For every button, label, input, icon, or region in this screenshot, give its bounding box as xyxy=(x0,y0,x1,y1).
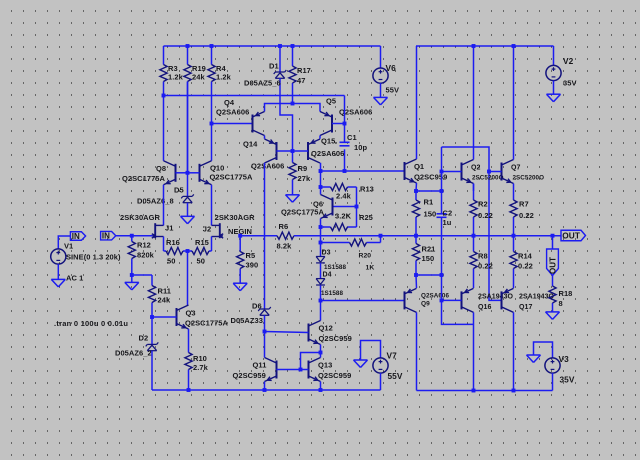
ground below V6 xyxy=(374,97,388,105)
svg-text:D2: D2 xyxy=(139,334,149,343)
junction Q2 collector rail xyxy=(472,44,476,48)
label V6 xyxy=(386,63,397,73)
wire C1 bottom xyxy=(344,149,346,171)
label R3 xyxy=(168,64,178,73)
wire Q1 collector to +rail xyxy=(416,46,418,159)
label V7 xyxy=(387,351,398,361)
svg-text:50: 50 xyxy=(167,257,175,266)
svg-text:D3: D3 xyxy=(322,250,331,257)
resistor R11 xyxy=(148,275,155,317)
label D5 xyxy=(174,186,184,195)
svg-text:Q4: Q4 xyxy=(224,98,235,107)
junction Q17 collector rail xyxy=(512,389,516,393)
wire D2 to bottom rail xyxy=(151,351,153,390)
svg-text:R12: R12 xyxy=(137,241,151,250)
value 3.2K of R25 xyxy=(335,212,352,221)
svg-text:Q2SC959: Q2SC959 xyxy=(233,371,266,380)
diode D4 xyxy=(316,279,325,285)
value D05AZ33 of D6 xyxy=(231,316,263,325)
jfet J2 xyxy=(212,223,224,238)
wire Q15 base xyxy=(293,150,309,152)
wire D1 anode xyxy=(279,46,281,72)
svg-text:R13: R13 xyxy=(360,185,374,194)
wire Q15 collector down xyxy=(320,163,322,195)
wire Q5 emitter jog xyxy=(293,104,321,112)
jfet J1 xyxy=(152,223,164,238)
value 2SC5200O of Q7 xyxy=(513,175,545,182)
label D1 xyxy=(269,62,279,71)
svg-text:R20: R20 xyxy=(359,253,372,260)
wire rail to load flag xyxy=(552,236,554,249)
value 150 of R21 xyxy=(422,254,435,263)
voltage source V3 circle xyxy=(545,358,560,373)
junction input bases xyxy=(186,171,190,175)
label Q17 xyxy=(519,304,532,311)
wire top jog to Q7 base column xyxy=(442,147,490,172)
wire bias node to Q12 collector xyxy=(320,301,322,321)
resistor R6 xyxy=(277,232,294,239)
junction R17 bottom emitters node xyxy=(291,102,295,106)
svg-text:R15: R15 xyxy=(195,238,209,247)
zener D5 xyxy=(181,194,194,202)
wire C2 column top xyxy=(441,147,443,214)
wire R12 to ground xyxy=(131,275,133,282)
value Q2SA606 of Q9 xyxy=(421,293,449,300)
value Q2SC1775A of Q10 xyxy=(210,173,254,182)
wire C1 top xyxy=(344,96,346,143)
svg-text:V7: V7 xyxy=(387,351,398,361)
label R7 xyxy=(519,200,529,209)
label R18 xyxy=(559,289,573,298)
label Q10 xyxy=(210,164,224,173)
junction Q16 base node xyxy=(440,298,444,302)
ground below V1 xyxy=(51,279,65,287)
resistor R3 xyxy=(160,46,167,96)
transistor Q13 xyxy=(309,358,321,382)
junction bias bases node xyxy=(291,149,295,153)
svg-text:R9: R9 xyxy=(298,164,308,173)
value 2SA1943O of Q16 xyxy=(478,294,514,301)
label D3 xyxy=(322,250,331,257)
junction R4 bottom node xyxy=(210,122,214,126)
label R2 xyxy=(478,200,488,209)
svg-text:Q7: Q7 xyxy=(511,165,520,172)
transistor Q14 xyxy=(265,139,277,163)
label Q1 xyxy=(414,162,424,171)
label Q3 xyxy=(186,309,196,318)
junction tail node xyxy=(186,249,190,253)
voltage source V6 circle xyxy=(373,68,388,83)
junction Q12 base node xyxy=(263,330,267,334)
transistor Q3 xyxy=(177,305,189,329)
junction R21 bottom xyxy=(414,273,418,277)
value 2SA1943O of Q17 xyxy=(519,294,555,301)
wire C2 column lower xyxy=(441,275,443,300)
svg-text:IN: IN xyxy=(72,232,80,241)
label Q4 xyxy=(224,98,235,107)
svg-text:35V: 35V xyxy=(560,375,575,385)
capacitor C1 xyxy=(340,142,350,146)
svg-text:D05AZ33: D05AZ33 xyxy=(231,316,263,325)
value D05AZ6_2 of D2 xyxy=(115,349,152,358)
svg-text:Q12: Q12 xyxy=(319,324,333,333)
svg-text:R21: R21 xyxy=(422,245,436,254)
flag OUT load (rotated) xyxy=(547,249,559,276)
wire Q7 base column xyxy=(489,172,502,301)
wire VAS node to Q1 base xyxy=(321,170,405,172)
value 24k of R19 xyxy=(192,73,205,82)
label Q6 xyxy=(313,200,323,209)
svg-text:24k: 24k xyxy=(158,296,171,305)
junction Q3 base node xyxy=(150,315,154,319)
svg-text:Q5: Q5 xyxy=(326,97,336,106)
svg-text:C2: C2 xyxy=(443,209,453,218)
label 55V of V6 xyxy=(386,86,400,95)
flag OUT main xyxy=(561,230,586,241)
resistor R25 xyxy=(321,223,357,230)
label C2 xyxy=(443,209,453,218)
resistor R20 xyxy=(321,239,381,246)
svg-text:0.22: 0.22 xyxy=(478,262,493,271)
svg-text:Q2SC1775A: Q2SC1775A xyxy=(281,208,325,217)
wire Q12 emitter jog xyxy=(301,353,321,370)
label R21 xyxy=(422,245,436,254)
label C1 xyxy=(347,133,357,142)
transistor Q7 xyxy=(502,160,514,184)
wire R20 right leg xyxy=(380,236,382,243)
svg-text:R5: R5 xyxy=(246,251,256,260)
svg-text:1S1588: 1S1588 xyxy=(324,264,346,271)
svg-text:1.2k: 1.2k xyxy=(168,73,184,82)
label Q2 xyxy=(471,165,480,172)
label Q13 xyxy=(318,361,332,370)
svg-text:D05AZ6_8: D05AZ6_8 xyxy=(137,197,174,206)
svg-text:2SC5200O: 2SC5200O xyxy=(513,175,545,182)
wire to D3 xyxy=(320,243,322,257)
value 2.4k of R13 xyxy=(336,192,352,201)
wire Q3 base node to D2 xyxy=(151,317,153,344)
svg-text:D4: D4 xyxy=(323,272,332,279)
wire V2 feed xyxy=(553,46,555,66)
svg-text:35V: 35V xyxy=(563,79,577,88)
label R16 xyxy=(166,238,180,247)
svg-text:D05AZ6_2: D05AZ6_2 xyxy=(115,349,152,358)
svg-text:R16: R16 xyxy=(166,238,180,247)
wire Q2 base xyxy=(442,171,462,173)
flag IN source xyxy=(70,232,85,241)
svg-text:D6: D6 xyxy=(252,302,262,311)
wire Q8 emitter to J1 drain xyxy=(163,185,165,226)
svg-text:Q2SA606: Q2SA606 xyxy=(421,293,449,300)
junction VAS node left xyxy=(319,169,323,173)
value Q2SC1775A of Q6 xyxy=(281,208,325,217)
svg-text:Q2SC959: Q2SC959 xyxy=(318,371,351,380)
value 2.7k of R10 xyxy=(193,363,209,372)
resistor R21 xyxy=(412,236,419,275)
svg-text:Q2SC1775A: Q2SC1775A xyxy=(122,174,166,183)
junction Q13 emitter rail xyxy=(319,388,323,392)
svg-text:C1: C1 xyxy=(347,133,357,142)
junction R10 bottom xyxy=(187,388,191,392)
junction R20 on out rail xyxy=(379,234,383,238)
svg-text:Q17: Q17 xyxy=(519,304,532,311)
svg-text:R14: R14 xyxy=(518,252,533,261)
wire D1 to bias node xyxy=(280,78,293,151)
svg-text:Q2SC959: Q2SC959 xyxy=(319,334,352,343)
wire V1 to IN flag xyxy=(58,236,70,249)
svg-text:Q3: Q3 xyxy=(186,309,196,318)
svg-text:IN: IN xyxy=(102,232,110,241)
wire Q5-Q15 link xyxy=(319,136,321,139)
svg-text:J1: J1 xyxy=(165,224,173,233)
wire R3 node down to Q8 collector xyxy=(163,96,165,161)
directive .tran xyxy=(54,319,128,328)
ground above V7 xyxy=(354,360,368,368)
wire V1 to ground xyxy=(57,264,59,279)
label D4 xyxy=(323,272,332,279)
label R12 xyxy=(137,241,151,250)
junction Q11 emitter rail xyxy=(263,388,267,392)
wire V7 minus to rail xyxy=(380,373,382,390)
ground below R5 xyxy=(233,283,247,291)
value 1K of R20 xyxy=(366,265,375,272)
value 0.22 of R7 xyxy=(519,211,534,220)
value 55V of V7 xyxy=(388,371,403,381)
resistor R12 xyxy=(128,236,135,275)
resistor R8 xyxy=(470,236,477,288)
svg-text:2.4k: 2.4k xyxy=(336,192,352,201)
svg-text:390: 390 xyxy=(246,261,259,270)
wire D4 down xyxy=(320,285,322,300)
wire Q3 base xyxy=(152,316,177,318)
junction Q7 collector rail xyxy=(512,44,516,48)
label D2 xyxy=(139,334,149,343)
value Q2SC1775A of Q3 xyxy=(185,319,229,328)
svg-text:Q2SA606: Q2SA606 xyxy=(251,162,284,171)
wire negative rail right xyxy=(417,390,553,392)
wire J1 source to R16 xyxy=(163,237,165,252)
value 0.22 of R14 xyxy=(518,262,533,271)
capacitor C2 xyxy=(437,214,447,218)
wire Q16 base xyxy=(442,299,462,301)
wire R19 to base node xyxy=(187,82,189,173)
svg-text:8: 8 xyxy=(559,299,563,308)
wire D5 to ground xyxy=(187,203,189,216)
junction C2 tap xyxy=(440,189,444,193)
svg-text:R17: R17 xyxy=(297,66,311,75)
value Q2SC1775A of Q8 xyxy=(122,174,166,183)
wire Q11 collector up xyxy=(264,332,266,358)
svg-text:J2: J2 xyxy=(203,225,211,234)
wire Q14 collector column xyxy=(264,163,266,309)
resistor R7 xyxy=(510,184,517,236)
resistor R16 xyxy=(164,247,188,254)
wire Q4 emitter jog xyxy=(265,104,293,112)
svg-text:55V: 55V xyxy=(388,371,403,381)
wire +35V top rail xyxy=(416,45,554,47)
transistor Q6 xyxy=(321,195,333,219)
wire Q12 base xyxy=(265,332,309,333)
svg-text:50: 50 xyxy=(197,257,205,266)
label R10 xyxy=(193,354,207,363)
svg-text:8.2k: 8.2k xyxy=(277,242,293,251)
wire R21 node right xyxy=(416,274,442,276)
resistor R13 xyxy=(321,183,357,190)
value AC 1 of V1 xyxy=(66,274,83,283)
svg-text:R10: R10 xyxy=(193,354,207,363)
value SINE of V1 xyxy=(66,253,121,262)
wire Q17 collector down xyxy=(513,312,515,390)
resistor R14 xyxy=(510,236,517,288)
value 390 of R5 xyxy=(246,261,259,270)
junction Q12 emitter node xyxy=(319,351,323,355)
wire Q7 collector xyxy=(513,46,515,160)
svg-text:1K: 1K xyxy=(366,265,375,272)
resistor R19 xyxy=(184,46,191,173)
ground above V3 xyxy=(527,355,541,363)
wire V2 to ground xyxy=(553,81,555,94)
svg-text:Q2SA606: Q2SA606 xyxy=(216,108,249,117)
value Q2SA606 of Q4 xyxy=(216,108,249,117)
junction bias bottom node xyxy=(319,299,323,303)
voltage source V1 circle xyxy=(51,249,66,264)
label R9 xyxy=(298,164,308,173)
wire Q13 emitter down xyxy=(320,382,322,391)
label R15 xyxy=(195,238,209,247)
transistor Q2 xyxy=(462,160,474,184)
svg-text:47: 47 xyxy=(297,76,305,85)
wire Q13 collector up xyxy=(320,353,322,358)
junction C1 bottom on VAS wire xyxy=(343,169,347,173)
value 27k of R9 xyxy=(298,174,311,183)
wire to J1 gate xyxy=(132,235,153,237)
wire flag to R18 xyxy=(552,276,554,287)
label V3 xyxy=(559,354,570,364)
value Q2SC959 of Q13 xyxy=(318,371,351,380)
wire out rail xyxy=(294,235,561,237)
value 0.22 of R8 xyxy=(478,262,493,271)
svg-text:Q2SC1775A: Q2SC1775A xyxy=(210,173,254,182)
value 2SK30AGR of J2 xyxy=(215,213,256,222)
transistor Q16 xyxy=(462,288,474,312)
resistor R1 xyxy=(412,191,419,236)
label Q7 xyxy=(511,165,520,172)
svg-text:D05AZ5_6: D05AZ5_6 xyxy=(244,79,281,88)
resistor R9 xyxy=(289,151,296,195)
voltage source V7 circle xyxy=(373,358,388,373)
label J1 xyxy=(165,224,173,233)
wire tail to Q3 collector xyxy=(187,251,189,305)
label R19 xyxy=(192,64,206,73)
label NEGIN net xyxy=(228,227,252,236)
value Q2SA606 of Q5 xyxy=(339,108,372,117)
junction driver bases xyxy=(299,368,303,372)
junction Q6 base node xyxy=(355,205,359,209)
junction R2 bottom rail xyxy=(472,234,476,238)
label R13 xyxy=(360,185,374,194)
value 35V of V3 xyxy=(560,375,575,385)
svg-text:55V: 55V xyxy=(386,86,400,95)
junction C2-R21 node xyxy=(440,273,444,277)
value 10p of C1 xyxy=(354,143,367,152)
wire J2 source to R15 xyxy=(211,237,213,252)
wire mid rail xyxy=(164,95,345,97)
svg-text:10p: 10p xyxy=(354,143,367,152)
resistor R15 xyxy=(188,247,212,254)
ground below R18 xyxy=(546,312,560,320)
wire Q16 collector down xyxy=(473,312,475,390)
svg-text:2SC5200O: 2SC5200O xyxy=(472,175,504,182)
resistor R4 xyxy=(208,46,215,124)
svg-text:3.2K: 3.2K xyxy=(335,212,352,221)
svg-text:Q8: Q8 xyxy=(156,164,166,173)
value D05AZ6_8 of D5 xyxy=(137,197,174,206)
value 2SK30AGR of J1 xyxy=(120,213,161,222)
svg-text:R11: R11 xyxy=(158,287,172,296)
svg-text:V6: V6 xyxy=(386,63,397,73)
zener D6 xyxy=(258,307,271,315)
resistor R18 xyxy=(549,286,556,312)
svg-text:Q10: Q10 xyxy=(210,164,224,173)
label Q9 xyxy=(421,301,430,308)
wire Q5 base xyxy=(332,123,345,125)
svg-text:1S1588: 1S1588 xyxy=(321,290,343,297)
transistor Q10 xyxy=(200,161,212,185)
junction R17 top xyxy=(291,44,295,48)
value 50 of R15 xyxy=(197,257,205,266)
wire Q10 emitter to J2 drain xyxy=(211,185,213,226)
wire Q2 collector xyxy=(473,46,475,160)
wire base node to D5 xyxy=(187,173,189,196)
svg-text:OUT: OUT xyxy=(562,230,580,240)
junction Q5 base C1 column xyxy=(343,122,347,126)
junction D1 top xyxy=(278,44,282,48)
svg-text:Q2SC959: Q2SC959 xyxy=(414,173,447,182)
junction R25 left xyxy=(319,225,323,229)
svg-text:150: 150 xyxy=(422,254,435,263)
wire Q11 emitter down xyxy=(264,382,266,391)
value 47 of R17 xyxy=(297,76,305,85)
value Q2SA606 of Q14 xyxy=(251,162,284,171)
transistor Q12 xyxy=(309,321,321,345)
zener D2 xyxy=(146,342,159,350)
flag IN amp input xyxy=(101,231,116,240)
resistor R10 xyxy=(185,353,192,391)
value Q2SA606 of Q15 xyxy=(311,149,344,158)
wire V6 to ground xyxy=(380,83,382,97)
junction OUT tap xyxy=(551,234,555,238)
wire R12 node to R11 xyxy=(132,274,152,276)
svg-text:Q14: Q14 xyxy=(243,140,258,149)
wire D6 to Q12 base node xyxy=(264,315,266,331)
transistor Q1 xyxy=(405,159,417,183)
svg-text:Q16: Q16 xyxy=(478,304,491,311)
svg-text:Q9: Q9 xyxy=(421,301,430,308)
value 1.2k of R4 xyxy=(216,73,232,82)
value 8 of R18 xyxy=(559,299,563,308)
value Q2SC959 of Q11 xyxy=(233,371,266,380)
value 24k of R11 xyxy=(158,296,171,305)
value D05AZ5_6 of D1 xyxy=(244,79,281,88)
svg-text:2.7k: 2.7k xyxy=(193,363,209,372)
resistor R5 xyxy=(237,236,244,283)
junction R7 bottom rail xyxy=(512,234,516,238)
label Q15 xyxy=(321,137,337,146)
wire Q14 base xyxy=(277,150,293,152)
junction R20 left node xyxy=(319,241,323,245)
svg-text:R6: R6 xyxy=(279,222,289,231)
wire Q16 B-C link xyxy=(442,300,474,324)
